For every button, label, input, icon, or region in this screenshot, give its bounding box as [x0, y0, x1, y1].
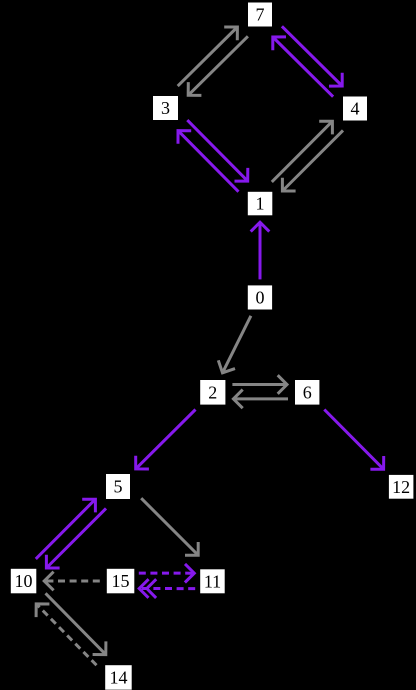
edge 10->14	[46, 593, 106, 654]
node 5	[106, 474, 130, 499]
node 3	[153, 96, 178, 120]
edge 0->2	[218, 316, 251, 373]
node 1	[248, 192, 272, 216]
edge 6->2	[233, 390, 288, 409]
svg-text:5: 5	[114, 477, 123, 497]
edge 1->3	[178, 131, 239, 192]
svg-text:4: 4	[351, 99, 360, 119]
svg-text:14: 14	[110, 668, 128, 688]
svg-text:2: 2	[208, 382, 217, 402]
node 12	[389, 475, 414, 499]
node 10	[11, 569, 37, 594]
edge 4->7	[273, 37, 333, 97]
edge 15->11	[139, 564, 195, 583]
node 14	[105, 665, 132, 690]
node 15	[107, 569, 135, 594]
edge 5->11	[141, 498, 198, 555]
edge 7->4	[282, 26, 342, 86]
edge 5->10	[46, 508, 106, 568]
edge 2->6	[232, 375, 287, 394]
node 11	[200, 569, 225, 593]
edge 15->10	[44, 572, 100, 591]
edge 11->15	[139, 579, 195, 598]
node 7	[248, 3, 272, 27]
svg-text:12: 12	[392, 477, 410, 497]
node 0	[248, 285, 272, 309]
svg-text:11: 11	[204, 571, 221, 591]
svg-text:7: 7	[256, 5, 265, 25]
node 4	[343, 97, 367, 121]
svg-text:1: 1	[256, 194, 265, 214]
edge 4->1	[282, 130, 343, 191]
svg-text:10: 10	[15, 571, 33, 591]
svg-text:6: 6	[303, 382, 312, 402]
edge 3->1	[187, 120, 248, 181]
node 2	[200, 380, 225, 405]
svg-text:0: 0	[256, 288, 265, 308]
svg-text:15: 15	[112, 571, 130, 591]
edge 1->4	[272, 121, 333, 182]
edge 6->12	[324, 410, 383, 470]
edge 0->1	[251, 222, 270, 279]
edge 10->5	[36, 499, 96, 559]
edge 2->5	[136, 410, 196, 470]
edge 7->3	[188, 36, 248, 95]
node 6	[295, 380, 319, 405]
edge 3->7	[178, 27, 238, 86]
svg-text:3: 3	[161, 98, 170, 118]
edge 14->10	[36, 604, 96, 665]
